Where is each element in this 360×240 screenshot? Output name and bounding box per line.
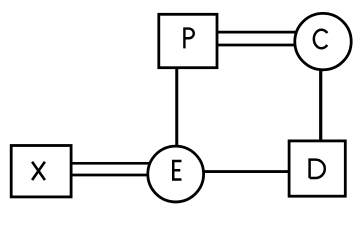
node P box [159, 14, 217, 67]
label C [314, 30, 327, 49]
edge X-E double line [60, 163, 175, 175]
edge P-C double line [205, 32, 320, 45]
node X box [11, 146, 71, 197]
node E circle [148, 146, 204, 202]
edge E-D wire [176, 170, 317, 173]
label P [184, 29, 193, 49]
label D [310, 160, 325, 178]
node D box [289, 141, 345, 196]
edge C-D wire [319, 42, 322, 168]
node C circle [295, 13, 351, 69]
label X [32, 162, 45, 180]
label E [173, 161, 181, 179]
edge P-E wire [175, 45, 178, 174]
